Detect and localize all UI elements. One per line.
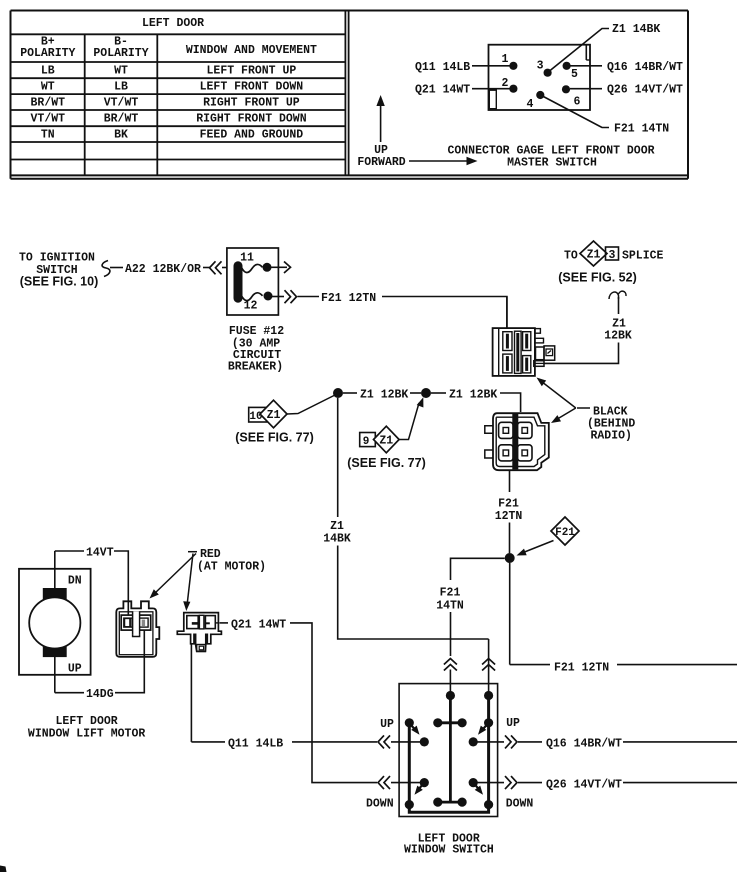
svg-text:F21 14TN: F21 14TN bbox=[614, 123, 669, 136]
svg-text:Q16 14BR/WT: Q16 14BR/WT bbox=[546, 738, 622, 751]
table title LEFT DOOR bbox=[142, 17, 204, 30]
svg-text:LEFT FRONT UP: LEFT FRONT UP bbox=[207, 65, 297, 78]
up arrow bbox=[376, 95, 384, 142]
svg-text:14TN: 14TN bbox=[436, 600, 464, 613]
wire Q11 14LB to pin 1 bbox=[415, 61, 512, 74]
svg-text:14VT: 14VT bbox=[86, 547, 114, 560]
lower black connector center bar bbox=[512, 414, 518, 469]
fuse coil bottom bbox=[242, 293, 263, 301]
svg-text:LEFT DOOR: LEFT DOOR bbox=[56, 715, 118, 728]
upper black connector terminals bbox=[503, 331, 531, 373]
svg-text:(SEE FIG. 52): (SEE FIG. 52) bbox=[558, 271, 637, 285]
fuse node 11 bbox=[263, 263, 272, 272]
inline connector body bbox=[177, 613, 221, 652]
label to ignition switch bbox=[19, 252, 98, 289]
svg-text:Q21 14WT: Q21 14WT bbox=[415, 84, 470, 97]
lower black connector terminals bbox=[499, 422, 532, 461]
svg-text:WT: WT bbox=[114, 65, 128, 78]
svg-text:LEFT FRONT DOWN: LEFT FRONT DOWN bbox=[200, 81, 304, 94]
svg-text:FUSE #12: FUSE #12 bbox=[229, 325, 284, 338]
wire Z1 12BK label 2 bbox=[449, 389, 521, 413]
svg-text:MASTER SWITCH: MASTER SWITCH bbox=[507, 157, 597, 170]
motor connector terminal bbox=[121, 611, 151, 636]
table row 3 bbox=[31, 97, 300, 110]
svg-text:FORWARD: FORWARD bbox=[357, 156, 405, 169]
switch left down arrow bbox=[415, 783, 425, 795]
motor armature circle bbox=[29, 597, 80, 648]
switch contact left down bbox=[420, 778, 429, 787]
arrow red to inline connector bbox=[183, 554, 193, 612]
wire Q21 14WT bbox=[220, 619, 378, 783]
svg-text:12: 12 bbox=[244, 300, 258, 313]
Z1 diamond left bbox=[260, 400, 287, 428]
lower black connector body bbox=[493, 413, 549, 470]
circuit breaker element bbox=[234, 266, 243, 298]
svg-text:RIGHT FRONT DOWN: RIGHT FRONT DOWN bbox=[196, 113, 307, 126]
table header B+ POLARITY bbox=[20, 36, 75, 61]
table row 5 bbox=[41, 129, 303, 142]
svg-text:DOWN: DOWN bbox=[366, 798, 394, 811]
svg-text:BREAKER): BREAKER) bbox=[228, 361, 283, 374]
upper black connector right tab bbox=[535, 338, 544, 343]
upper black connector body bbox=[493, 328, 535, 376]
reference box 9 bbox=[360, 433, 376, 449]
svg-text:UP: UP bbox=[68, 663, 82, 676]
wire F21 12TN from breaker bbox=[298, 292, 507, 328]
label DOWN left bbox=[366, 798, 394, 811]
svg-text:12TN: 12TN bbox=[495, 510, 523, 523]
svg-text:TO IGNITION: TO IGNITION bbox=[19, 252, 95, 265]
svg-text:(SEE FIG. 77): (SEE FIG. 77) bbox=[235, 431, 314, 445]
banner separator double line bbox=[345, 11, 348, 176]
table row 4 bbox=[31, 113, 307, 126]
upper black connector side lock bbox=[536, 346, 555, 360]
upper black connector lower-right tab bbox=[534, 361, 544, 367]
switch right up contact arrow bbox=[478, 723, 489, 735]
junction node Z1 left bbox=[333, 388, 343, 398]
wire segment between Z1 labels bbox=[410, 392, 446, 394]
switch right rail bbox=[484, 696, 493, 810]
svg-text:F21: F21 bbox=[440, 587, 461, 600]
svg-text:F21: F21 bbox=[555, 527, 575, 539]
wire F21 12TN below connector bbox=[495, 470, 523, 553]
svg-text:(AT MOTOR): (AT MOTOR) bbox=[197, 561, 266, 574]
splice hook symbol bbox=[609, 291, 626, 299]
wire from Z1 diamond to junction bbox=[287, 395, 336, 415]
svg-text:6: 6 bbox=[574, 96, 581, 109]
switch feed wire chevrons left bbox=[444, 659, 457, 671]
svg-text:DN: DN bbox=[68, 575, 82, 588]
switch right down arrow bbox=[473, 783, 483, 795]
svg-text:(SEE FIG. 10): (SEE FIG. 10) bbox=[20, 275, 99, 289]
table row lines bbox=[11, 34, 346, 159]
svg-text:LB: LB bbox=[114, 81, 128, 94]
svg-text:5: 5 bbox=[571, 68, 578, 81]
svg-text:WT: WT bbox=[41, 81, 55, 94]
svg-text:VT/WT: VT/WT bbox=[31, 113, 66, 126]
pin 1 bbox=[502, 53, 518, 70]
pin 6 bbox=[562, 85, 581, 108]
inline connector terminals bbox=[187, 615, 219, 651]
svg-text:Q16 14BR/WT: Q16 14BR/WT bbox=[607, 61, 683, 74]
forward arrow bbox=[409, 157, 478, 165]
motor label UP bbox=[68, 663, 82, 676]
label see fig 77 right bbox=[347, 456, 426, 470]
wire F21 12TN to switch row bbox=[510, 563, 737, 675]
wire A22 12BK/OR bbox=[110, 263, 210, 276]
switch wire F21 into box bbox=[449, 670, 451, 696]
wire F21 14TN to pin 4 bbox=[541, 95, 670, 136]
switch center feed column bbox=[433, 696, 467, 807]
svg-text:3: 3 bbox=[537, 60, 544, 73]
svg-text:A22 12BK/OR: A22 12BK/OR bbox=[125, 263, 201, 276]
motor label bbox=[28, 715, 145, 741]
svg-text:VT/WT: VT/WT bbox=[104, 97, 139, 110]
connector gage box keyway left bbox=[489, 90, 496, 109]
wire Q26 14VT/WT bbox=[477, 776, 737, 791]
pin 2 bbox=[502, 77, 518, 93]
wire 14VT bbox=[55, 547, 129, 616]
svg-text:9: 9 bbox=[363, 436, 370, 448]
motor label DN bbox=[68, 575, 82, 588]
svg-text:POLARITY: POLARITY bbox=[93, 47, 148, 60]
svg-text:WINDOW SWITCH: WINDOW SWITCH bbox=[404, 844, 494, 857]
label UP FORWARD bbox=[357, 144, 405, 169]
wire Z1 12BK to splice bbox=[544, 297, 632, 363]
switch feed wire chevrons right bbox=[482, 659, 495, 671]
svg-text:12BK: 12BK bbox=[604, 330, 632, 343]
wire break squiggle at ignition bbox=[102, 261, 110, 277]
lower black connector left keys bbox=[485, 426, 493, 458]
svg-text:FEED AND GROUND: FEED AND GROUND bbox=[200, 129, 304, 142]
wire Z1 12BK label 1 bbox=[343, 389, 408, 402]
label black behind radio bbox=[577, 406, 635, 443]
wire Q11 14LB bbox=[191, 644, 377, 751]
label left door window switch bbox=[404, 833, 494, 857]
svg-text:RADIO): RADIO) bbox=[591, 430, 632, 443]
svg-text:SPLICE: SPLICE bbox=[622, 250, 664, 263]
motor brush top bbox=[43, 588, 67, 600]
wire Q21 14WT to pin 2 bbox=[415, 84, 512, 97]
wire Z1 14BK to pin 3 bbox=[547, 23, 660, 73]
reference box 10 bbox=[249, 407, 267, 423]
svg-text:Z1 12BK: Z1 12BK bbox=[360, 389, 408, 402]
fuse node 12 bbox=[264, 292, 273, 301]
svg-text:11: 11 bbox=[240, 252, 254, 265]
arrow red to motor connector bbox=[150, 554, 197, 599]
label connector gage bbox=[447, 145, 654, 170]
arrow to lower connector bbox=[551, 408, 576, 423]
connector gage box bbox=[489, 45, 591, 110]
switch contact left up bbox=[420, 737, 429, 746]
switch top pin right bbox=[484, 691, 493, 700]
svg-text:LEFT DOOR: LEFT DOOR bbox=[142, 17, 204, 30]
upper black connector top-right step bbox=[535, 329, 541, 334]
svg-text:14BK: 14BK bbox=[323, 533, 351, 546]
svg-text:WINDOW AND MOVEMENT: WINDOW AND MOVEMENT bbox=[186, 44, 317, 57]
Z1 diamond right bbox=[374, 426, 400, 453]
svg-text:LB: LB bbox=[41, 65, 55, 78]
scan mark bottom-left corner bbox=[0, 866, 7, 872]
switch wire left down into box bbox=[378, 776, 424, 789]
switch left up contact arrow bbox=[409, 723, 419, 735]
fuse terminal label 12 bbox=[244, 300, 258, 313]
pin 4 bbox=[527, 91, 545, 111]
svg-text:RED: RED bbox=[200, 548, 221, 561]
motor connector body bbox=[116, 601, 159, 657]
arrow from Z1 diamond to junction bbox=[399, 397, 423, 439]
label UP left bbox=[380, 718, 394, 731]
svg-text:POLARITY: POLARITY bbox=[20, 47, 75, 60]
svg-text:Q21 14WT: Q21 14WT bbox=[231, 619, 286, 632]
wire Q26 14VT/WT to pin 6 bbox=[570, 84, 683, 97]
table row 2 bbox=[41, 81, 303, 94]
junction node F21 bbox=[505, 553, 515, 563]
svg-text:TN: TN bbox=[41, 129, 55, 142]
label UP right bbox=[506, 717, 520, 730]
wire 14DG bbox=[55, 630, 145, 701]
svg-text:4: 4 bbox=[527, 98, 534, 111]
svg-text:Z1: Z1 bbox=[379, 435, 393, 448]
svg-text:14DG: 14DG bbox=[86, 688, 114, 701]
svg-text:UP: UP bbox=[380, 718, 394, 731]
svg-text:Z1 12BK: Z1 12BK bbox=[449, 389, 497, 402]
svg-text:RIGHT FRONT UP: RIGHT FRONT UP bbox=[203, 97, 300, 110]
fuse coil top bbox=[242, 264, 263, 272]
fuse terminal label 11 bbox=[240, 252, 254, 265]
switch wire left up into box bbox=[378, 735, 424, 748]
svg-text:Q11 14LB: Q11 14LB bbox=[228, 738, 283, 751]
left door window switch box bbox=[399, 684, 498, 817]
svg-text:Z1 14BK: Z1 14BK bbox=[612, 23, 660, 36]
svg-text:Z1: Z1 bbox=[267, 409, 281, 422]
svg-text:F21 12TN: F21 12TN bbox=[321, 292, 376, 305]
arrow to upper connector bbox=[537, 378, 576, 409]
wire Q16 14BR/WT to pin 5 bbox=[570, 61, 683, 74]
banner outer frame bbox=[11, 11, 689, 179]
label TO Z1 splice bbox=[558, 241, 663, 285]
svg-text:Z1: Z1 bbox=[330, 520, 344, 533]
F21 diamond bbox=[551, 517, 579, 545]
svg-text:UP: UP bbox=[506, 717, 520, 730]
table header WINDOW AND MOVEMENT bbox=[186, 44, 317, 57]
svg-text:BR/WT: BR/WT bbox=[104, 113, 139, 126]
svg-text:TO: TO bbox=[564, 250, 578, 263]
connector gage box keyway top-right bbox=[586, 46, 589, 61]
svg-text:F21: F21 bbox=[498, 498, 519, 511]
label fuse 12 bbox=[228, 325, 284, 374]
svg-text:1: 1 bbox=[502, 53, 509, 66]
wire Q16 14BR/WT bbox=[477, 735, 737, 750]
switch contact right down bbox=[469, 778, 478, 787]
svg-text:Q26 14VT/WT: Q26 14VT/WT bbox=[546, 778, 622, 791]
svg-text:(SEE FIG. 77): (SEE FIG. 77) bbox=[347, 456, 426, 470]
switch contact right up bbox=[469, 737, 478, 746]
fuse 12 box bbox=[227, 248, 279, 315]
svg-text:Q11 14LB: Q11 14LB bbox=[415, 61, 470, 74]
junction node Z1 right bbox=[421, 388, 431, 398]
table header B- POLARITY bbox=[93, 36, 148, 61]
label DOWN right bbox=[506, 798, 534, 811]
pin 3 bbox=[537, 60, 552, 77]
table column lines bbox=[85, 34, 158, 175]
svg-text:BR/WT: BR/WT bbox=[31, 97, 66, 110]
svg-text:F21 12TN: F21 12TN bbox=[554, 662, 609, 675]
svg-text:WINDOW LIFT MOTOR: WINDOW LIFT MOTOR bbox=[28, 728, 145, 741]
svg-text:3: 3 bbox=[609, 249, 616, 262]
switch wire Z1 into box bbox=[488, 639, 490, 696]
svg-text:Z1: Z1 bbox=[587, 249, 601, 262]
pin 5 bbox=[563, 62, 579, 81]
wire F21 14TN from junction bbox=[436, 558, 505, 656]
label see fig 77 left bbox=[235, 431, 314, 445]
arrow from F21 diamond to junction bbox=[517, 541, 554, 556]
svg-text:BK: BK bbox=[114, 129, 128, 142]
wire into upper connector bbox=[506, 297, 508, 329]
Z1 14BK vertical wire bbox=[323, 398, 488, 639]
connector chevrons on A22 wire bbox=[210, 261, 228, 274]
fuse output arrow top bbox=[271, 262, 291, 274]
table row 1 bbox=[41, 65, 296, 78]
svg-text:DOWN: DOWN bbox=[506, 798, 534, 811]
motor brush bottom bbox=[43, 645, 67, 657]
left door window lift motor body bbox=[19, 569, 91, 675]
fuse output chevrons bottom bbox=[272, 290, 297, 303]
switch top pin left bbox=[446, 691, 455, 700]
svg-text:Q26 14VT/WT: Q26 14VT/WT bbox=[607, 84, 683, 97]
switch left rail bbox=[405, 718, 489, 812]
label red at motor bbox=[188, 548, 266, 574]
